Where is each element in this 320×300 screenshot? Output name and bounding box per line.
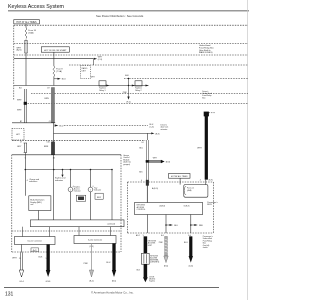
MICU out wire 3 arrow	[191, 224, 195, 226]
wire into MICU	[146, 182, 148, 203]
branch arrow BLU	[54, 78, 58, 80]
connector rail y122.8	[12, 122, 55, 124]
svg-text:Keyless: Keyless	[149, 280, 155, 282]
MICU out wire 3	[190, 215, 192, 234]
feed bar head	[204, 112, 209, 116]
wire A21 to box	[25, 53, 27, 59]
thick bar to gauge	[51, 142, 54, 155]
svg-text:continued: continued	[107, 222, 115, 225]
ground wire 2 arrow	[46, 270, 51, 277]
wire fuse16 down	[25, 40, 27, 41]
junction node splice	[24, 102, 27, 105]
small dashed box	[12, 129, 24, 141]
antenna wire PNK arrow	[89, 270, 93, 277]
svg-text:131: 131	[5, 292, 14, 298]
wire right drop	[111, 170, 113, 220]
arrow right y133.4	[151, 132, 154, 134]
wire row y133.4	[54, 132, 152, 134]
ground wire 1 arrow	[19, 270, 24, 277]
inline connector A-2 box	[31, 248, 39, 252]
arrow right y125.5	[55, 124, 59, 126]
wire left conn to gauge	[24, 153, 26, 155]
svg-text:WHT: WHT	[17, 100, 22, 102]
wire ign to box	[53, 52, 55, 59]
svg-text:(F-2): (F-2)	[126, 101, 130, 103]
indicator icon 2	[95, 193, 103, 199]
relay row arrow 3	[146, 85, 149, 87]
under-hood fuse/relay box left edge	[13, 25, 15, 100]
option dashed box	[80, 66, 90, 79]
svg-text:gauges): gauges)	[123, 164, 130, 166]
gauge assembly top edge	[12, 154, 121, 156]
svg-text:MICU: MICU	[207, 204, 212, 206]
relay row arrow 2	[132, 85, 135, 87]
svg-text:A (E-9): A (E-9)	[160, 204, 166, 207]
svg-text:RED: RED	[199, 225, 204, 227]
HOT AT ALL TIMES box 2	[169, 174, 191, 179]
HOT IN ON OR START box	[41, 47, 69, 52]
svg-text:(D-6): (D-6)	[189, 265, 194, 267]
MICU box top edge	[128, 181, 214, 183]
antenna ground arrow	[143, 277, 148, 282]
svg-text:CONTROL: CONTROL	[137, 209, 146, 211]
svg-text:A16: A16	[125, 74, 128, 77]
HOT AT ALL TIMES box 1	[14, 20, 40, 24]
svg-text:(E-9): (E-9)	[155, 133, 160, 135]
keyless stub arrow	[161, 160, 165, 163]
svg-text:indicators: indicators	[55, 179, 63, 182]
dashed box edge row y65	[69, 64, 248, 66]
svg-text:A3-2: A3-2	[136, 234, 140, 237]
svg-text:See Power Distribution : See G: See Power Distribution : See Grounds	[96, 14, 144, 18]
bus stub arrow	[62, 170, 64, 175]
svg-text:(A-2): (A-2)	[33, 249, 37, 252]
svg-text:(B-5): (B-5)	[112, 280, 117, 282]
antenna bar upper	[144, 237, 147, 254]
wire battery to fuse 16	[25, 24, 27, 28]
svg-text:MAIN FUSES): MAIN FUSES)	[199, 51, 213, 54]
keyless wire pair	[145, 140, 147, 182]
pass wire PNK arrow	[164, 256, 168, 263]
svg-text:(C-3): (C-3)	[98, 59, 103, 61]
MICU box left edge	[127, 182, 129, 233]
svg-text:(A21): (A21)	[17, 49, 22, 52]
feed bar head dashes	[209, 112, 216, 114]
svg-text:BRN: BRN	[44, 146, 49, 148]
svg-text:(E-9): (E-9)	[166, 161, 171, 163]
svg-text:(B-2): (B-2)	[89, 280, 94, 282]
indicator icon 1	[76, 195, 85, 201]
relay row arrow 1	[106, 85, 109, 87]
ground wire 2 bar	[47, 245, 50, 271]
svg-text:(DRIVER'S): (DRIVER'S)	[150, 261, 159, 263]
antenna bar lower	[144, 264, 147, 277]
svg-text:Indicator: Indicator	[94, 189, 101, 192]
wire hot2 down	[179, 178, 181, 184]
svg-text:BLU: BLU	[106, 262, 110, 264]
dashed box edge row y55	[14, 54, 248, 56]
svg-text:4: 4	[200, 180, 201, 182]
keyless stub bar	[149, 160, 161, 162]
svg-text:GRY: GRY	[17, 146, 22, 148]
fuse box F2-1	[184, 185, 208, 198]
indicator lamp 1 lower wire	[70, 192, 72, 220]
antenna inline connector	[141, 253, 149, 264]
in-line connector box left	[15, 237, 56, 245]
svg-text:BLK: BLK	[39, 257, 43, 259]
pass wire BLU arrow	[189, 256, 193, 263]
connector A21	[25, 41, 28, 54]
dashed box edge row y78	[124, 78, 248, 80]
indicator lamp 2	[88, 187, 93, 192]
svg-text:C4: C4	[141, 142, 143, 144]
svg-text:Relay 1: Relay 1	[99, 90, 105, 92]
svg-text:WHT: WHT	[17, 110, 22, 112]
splice dashed row y104	[28, 103, 249, 105]
svg-text:(7.5A): (7.5A)	[56, 70, 62, 73]
bus ground bar	[113, 244, 116, 271]
svg-text:C16: C16	[46, 142, 49, 144]
under-hood fuse/relay box bottom edge	[14, 43, 248, 45]
svg-text:A (E-9): A (E-9)	[152, 187, 158, 190]
under-dash box top edge	[14, 58, 94, 60]
svg-text:HOT AT ALL TIMES: HOT AT ALL TIMES	[16, 21, 37, 24]
svg-text:G (E-9): G (E-9)	[184, 205, 190, 207]
svg-text:© American Honda Motor Co., In: © American Honda Motor Co., Inc.	[91, 291, 134, 295]
svg-text:HOT IN ON OR START: HOT IN ON OR START	[44, 49, 67, 52]
pass wire PNK bar	[165, 237, 168, 257]
dashed continuation y125.5	[64, 125, 148, 127]
svg-text:C7: C7	[20, 142, 22, 144]
svg-text:WHT: WHT	[12, 258, 17, 260]
svg-text:In-Line Connector: In-Line Connector	[88, 239, 103, 242]
svg-text:actuator: actuator	[161, 128, 168, 131]
connector C503 left	[23, 143, 25, 153]
under-dash top edge arrow	[94, 58, 97, 60]
pass wire BLU bar	[189, 237, 192, 257]
svg-text:Indicator: Indicator	[74, 190, 81, 193]
fuse F16	[25, 28, 27, 39]
indicator lamp 2 wire	[90, 170, 92, 188]
wire gauge left	[24, 155, 26, 196]
bus drop wires	[22, 227, 24, 237]
svg-text:Box: Box	[202, 97, 205, 99]
MICU out wire 2	[165, 215, 167, 234]
svg-text:Keyless Access System: Keyless Access System	[8, 4, 65, 10]
svg-text:WHT: WHT	[197, 147, 202, 149]
title rule	[8, 10, 249, 12]
svg-text:indicators: indicators	[29, 180, 37, 183]
under-hood fuse/relay box top edge	[14, 24, 248, 26]
indicator lamp 1	[68, 187, 73, 192]
relay box 2	[135, 81, 142, 86]
feed bar stub	[205, 180, 207, 185]
wire left branch in box	[25, 59, 27, 86]
gauge assembly bottom edge	[12, 251, 121, 253]
page right edge	[247, 0, 249, 300]
dashed box edge row y93	[31, 93, 248, 95]
thick wire BRN bar	[51, 88, 54, 123]
svg-text:(C-3): (C-3)	[150, 126, 155, 128]
MICU inner unit box	[135, 203, 203, 215]
MID output wire	[37, 211, 39, 220]
svg-text:1: 1	[90, 189, 91, 191]
indicator lamp 1 wire	[70, 170, 72, 188]
svg-text:WHT: WHT	[91, 77, 95, 79]
svg-text:Relay 2: Relay 2	[135, 90, 141, 92]
wire fuse8 down	[53, 77, 55, 86]
gauge assembly left edge	[11, 155, 13, 252]
indicator bus line	[25, 169, 112, 171]
svg-text:PNK: PNK	[84, 263, 89, 265]
svg-text:BLU: BLU	[184, 242, 188, 244]
tall feed bar WHT	[205, 112, 208, 180]
dashed row y140.3	[12, 139, 145, 141]
svg-text:G501: G501	[46, 281, 52, 283]
ground wire 1	[21, 245, 23, 253]
svg-text:4: 4	[27, 180, 28, 182]
in-line connector bus	[30, 220, 124, 227]
svg-text:(E-9): (E-9)	[209, 180, 213, 182]
svg-text:HOT AT ALL TIMES: HOT AT ALL TIMES	[171, 175, 188, 178]
keyless drop from row	[146, 133, 148, 140]
fuse box brace	[184, 186, 186, 194]
relay row wire	[14, 85, 149, 87]
wire ign below rail	[53, 123, 55, 142]
svg-text:E-6: E-6	[161, 235, 164, 237]
wire ign branch in box	[53, 59, 55, 66]
wire gauge right	[53, 155, 55, 220]
MID unit box	[29, 196, 51, 211]
svg-text:BLU: BLU	[174, 225, 178, 227]
bus junction dots	[25, 169, 27, 171]
svg-text:BLU: BLU	[62, 79, 66, 81]
svg-text:1: 1	[70, 189, 71, 191]
under-dash top edge stub	[93, 59, 95, 65]
bus ground arrow	[112, 270, 116, 277]
relay drop arrow	[127, 97, 129, 100]
svg-text:In-Line Connector: In-Line Connector	[28, 240, 43, 243]
footer rule	[4, 287, 219, 289]
relay box 1	[99, 81, 106, 86]
svg-text:(30A): (30A)	[28, 32, 33, 35]
svg-text:BLU: BLU	[59, 125, 63, 127]
svg-text:A27: A27	[16, 133, 19, 136]
svg-text:1: 1	[46, 258, 47, 260]
fuse F8	[53, 66, 55, 77]
MICU out wire 2 arrow	[166, 224, 170, 226]
svg-text:4: 4	[141, 180, 142, 182]
MICU box bottom edge	[128, 232, 214, 234]
svg-text:BRN: BRN	[45, 98, 50, 100]
shielded wire WHT pair	[23, 89, 25, 123]
MICU box right edge	[212, 182, 214, 233]
MICU out wire 1	[146, 215, 148, 234]
svg-text:(40A): (40A)	[187, 189, 192, 192]
keyless wire splice	[146, 160, 149, 162]
svg-text:switch: switch	[203, 246, 208, 249]
svg-text:KEY: KEY	[97, 197, 102, 199]
svg-text:unit: unit	[30, 203, 34, 206]
indicator lamp 2 lower wire	[90, 192, 92, 220]
gauge assembly right edge	[120, 155, 122, 252]
antenna wire PNK	[91, 244, 93, 271]
in-line connector box right	[74, 236, 116, 244]
dashed row y231	[12, 230, 121, 232]
relay drop wire	[128, 79, 130, 97]
svg-text:(E-6): (E-6)	[164, 265, 169, 267]
